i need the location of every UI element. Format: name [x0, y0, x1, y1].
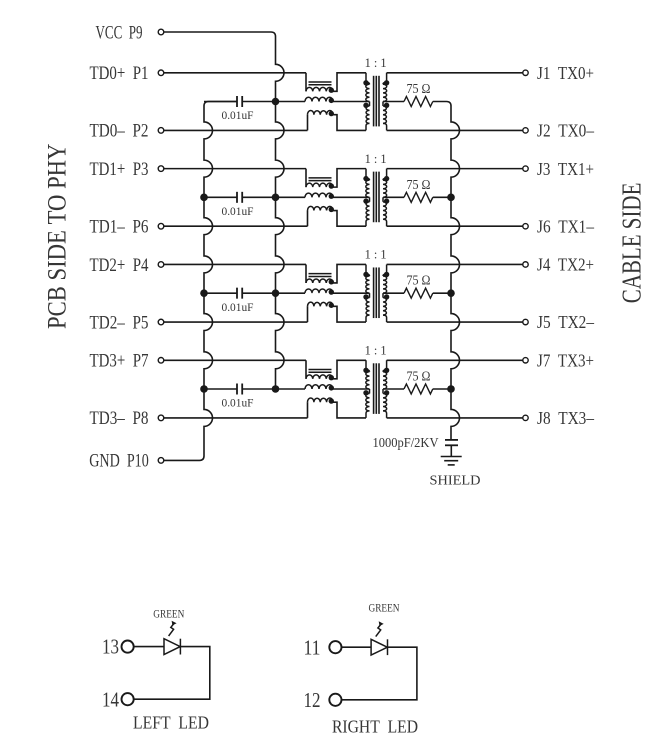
transformer T3 secondary winding	[383, 264, 387, 276]
svg-text:75 Ω: 75 Ω	[407, 81, 431, 96]
svg-text:75 Ω: 75 Ω	[407, 273, 431, 288]
choke L4 winding c	[307, 402, 309, 418]
junction capacitor bus channel 3	[200, 289, 208, 297]
svg-text:0.01uF: 0.01uF	[222, 396, 254, 410]
choke L3 winding c	[307, 306, 309, 322]
choke L1 winding b (center-tap path)	[276, 101, 306, 103]
svg-text:TD2+ P4: TD2+ P4	[90, 256, 149, 276]
capacitor C5 1000pF/2KV	[445, 439, 458, 441]
choke L3 winding a	[305, 264, 307, 283]
transformer T3 secondary dots	[384, 272, 389, 277]
ground symbol SHIELD	[441, 456, 462, 458]
choke L1 winding a	[305, 73, 307, 92]
svg-text:PCB SIDE TO PHY: PCB SIDE TO PHY	[42, 143, 71, 329]
resistor R4 75 ohm	[383, 388, 404, 390]
wire TX3+ row	[387, 359, 523, 361]
pin 12 terminal	[329, 694, 341, 706]
wire TD0- row	[164, 129, 308, 131]
capacitor C3 0.01uF	[204, 292, 237, 294]
transformer T4 primary dots	[363, 368, 368, 373]
wire LED cathode to pin 12	[342, 647, 417, 700]
pin P1 terminal	[158, 70, 164, 76]
common-mode choke L4 core	[309, 368, 332, 370]
common-mode choke L2 core	[309, 177, 332, 179]
transformer T3 primary dots	[363, 272, 368, 277]
wire TD3- row	[164, 417, 308, 419]
wire GND P10 to capacitor bus with hops	[164, 102, 237, 461]
wire TD2+ row	[164, 263, 306, 265]
svg-text:1000pF/2KV: 1000pF/2KV	[373, 435, 439, 450]
transformer T1 core	[373, 76, 375, 127]
choke L3 winding c polarity dot	[329, 303, 334, 308]
pin P2 terminal	[158, 128, 164, 134]
pin J8 terminal	[523, 415, 528, 420]
wire pin 13 to LED anode	[134, 646, 164, 648]
resistor R2 75 ohm	[383, 196, 404, 198]
junction center-tap bus channel 1	[272, 98, 280, 106]
pin P4 terminal	[158, 262, 164, 268]
choke L2 winding b (center-tap path)	[276, 196, 306, 198]
wire VCC P9 to center-tap bus + vertical bus with hops	[164, 32, 284, 389]
transformer T1 primary winding	[366, 73, 370, 85]
transformer T2 primary winding	[366, 169, 370, 180]
svg-text:1 : 1: 1 : 1	[365, 152, 387, 166]
junction capacitor bus channel 4	[200, 385, 208, 393]
common-mode choke L1 core	[309, 81, 332, 83]
pin J4 terminal	[523, 262, 528, 267]
svg-text:75 Ω: 75 Ω	[407, 177, 431, 192]
svg-text:LEFT LED: LEFT LED	[133, 713, 209, 733]
transformer T3 core	[373, 267, 375, 318]
svg-text:13: 13	[102, 635, 119, 659]
pin VCC P9 terminal	[158, 29, 164, 35]
choke L4 winding a	[305, 360, 307, 379]
wire TD3+ row	[164, 359, 306, 361]
transformer T4 secondary winding	[383, 360, 387, 372]
svg-text:1 : 1: 1 : 1	[365, 248, 387, 262]
wire TX1- row	[387, 225, 523, 227]
svg-text:CABLE SIDE: CABLE SIDE	[617, 183, 647, 304]
svg-text:1 : 1: 1 : 1	[365, 56, 387, 70]
svg-text:J6 TX1–: J6 TX1–	[537, 216, 595, 236]
capacitor C4 0.01uF	[204, 388, 237, 390]
svg-text:1 : 1: 1 : 1	[365, 344, 387, 358]
choke L1 winding c	[307, 115, 309, 131]
LED D-RIGHT (green)	[371, 639, 387, 655]
wire TX1+ row	[387, 168, 523, 170]
wire TX2- row	[387, 321, 523, 323]
transformer T4 primary winding	[366, 360, 370, 372]
wire pin 11 to LED anode	[342, 646, 372, 648]
wire TD0+ row	[164, 72, 306, 74]
pin 13 terminal	[122, 641, 134, 653]
junction center-tap bus channel 2	[272, 194, 280, 202]
pin J5 terminal	[523, 319, 528, 324]
choke L4 winding c polarity dot	[329, 398, 334, 403]
svg-text:J1 TX0+: J1 TX0+	[537, 63, 594, 83]
resistor R1 75 ohm	[383, 101, 404, 103]
junction center-tap bus channel 4	[272, 385, 280, 393]
choke L3 winding a polarity dot	[329, 279, 334, 284]
svg-text:75 Ω: 75 Ω	[407, 369, 431, 384]
svg-text:TD3+ P7: TD3+ P7	[90, 352, 149, 372]
svg-text:0.01uF: 0.01uF	[222, 108, 254, 122]
pin P5 terminal	[158, 319, 164, 325]
svg-text:0.01uF: 0.01uF	[222, 300, 254, 314]
choke L2 winding b polarity dot	[329, 194, 334, 199]
svg-text:12: 12	[304, 688, 321, 712]
choke L3 winding b (center-tap path)	[276, 292, 306, 294]
wire TX0+ row	[387, 72, 523, 74]
transformer T4 secondary dots	[384, 368, 389, 373]
choke L4 winding b (center-tap path)	[276, 388, 306, 390]
svg-text:J7 TX3+: J7 TX3+	[537, 350, 594, 370]
pin J2 terminal	[523, 128, 528, 133]
LED D-LEFT (green)	[164, 639, 180, 655]
svg-text:J2 TX0–: J2 TX0–	[537, 121, 595, 141]
svg-text:RIGHT LED: RIGHT LED	[332, 717, 418, 737]
choke L2 winding a	[305, 169, 307, 188]
common-mode choke L3 core	[309, 273, 332, 275]
junction shield bus channel 4	[447, 385, 455, 393]
choke L1 winding b polarity dot	[329, 98, 334, 103]
svg-text:SHIELD: SHIELD	[430, 472, 481, 487]
transformer T1 primary dots	[363, 80, 368, 85]
svg-text:0.01uF: 0.01uF	[222, 204, 254, 218]
pin J3 terminal	[523, 166, 528, 171]
svg-text:J8 TX3–: J8 TX3–	[537, 408, 595, 428]
choke L1 winding c polarity dot	[329, 111, 334, 116]
transformer T2 core	[373, 172, 375, 223]
svg-text:GND P10: GND P10	[89, 452, 149, 472]
svg-text:TD2– P5: TD2– P5	[90, 313, 149, 333]
svg-text:TD0+ P1: TD0+ P1	[90, 64, 149, 84]
choke L4 winding a polarity dot	[329, 375, 334, 380]
choke L3 winding b polarity dot	[329, 289, 334, 294]
wire TD2- row	[164, 321, 308, 323]
choke L2 winding a polarity dot	[329, 183, 334, 188]
pin J1 terminal	[523, 70, 528, 75]
svg-text:J5 TX2–: J5 TX2–	[537, 312, 595, 332]
wire TX0- row	[387, 129, 523, 131]
svg-text:GREEN: GREEN	[153, 607, 184, 621]
pin J6 terminal	[523, 224, 528, 229]
svg-text:J3 TX1+: J3 TX1+	[537, 159, 594, 179]
svg-text:TD1+ P3: TD1+ P3	[90, 160, 149, 180]
choke L1 winding a polarity dot	[329, 88, 334, 93]
capacitor C2 0.01uF	[204, 196, 237, 198]
pin 14 terminal	[122, 693, 134, 705]
wire TD1+ row	[164, 168, 306, 170]
resistor R3 75 ohm	[383, 292, 404, 294]
capacitor C1 0.01uF	[204, 101, 237, 103]
wire TX2+ row	[387, 263, 523, 265]
pin P3 terminal	[158, 166, 164, 172]
transformer T3 primary winding	[366, 264, 370, 276]
junction shield bus channel 3	[447, 289, 455, 297]
pin P7 terminal	[158, 357, 164, 363]
choke L2 winding c polarity dot	[329, 207, 334, 212]
LEFT LED light arrow	[169, 623, 175, 636]
transformer T2 secondary dots	[384, 176, 389, 181]
pin J7 terminal	[523, 358, 528, 363]
svg-text:VCC P9: VCC P9	[96, 23, 143, 43]
pin 11 terminal	[329, 641, 341, 653]
choke L4 winding b polarity dot	[329, 385, 334, 390]
junction shield bus channel 2	[447, 194, 455, 202]
transformer T1 secondary winding	[383, 73, 387, 85]
junction capacitor bus channel 2	[200, 194, 208, 202]
pin P6 terminal	[158, 223, 164, 229]
svg-text:TD3– P8: TD3– P8	[90, 409, 149, 429]
svg-text:11: 11	[304, 635, 321, 659]
svg-text:14: 14	[102, 687, 119, 711]
transformer T4 core	[373, 363, 375, 414]
pin P8 terminal	[158, 415, 164, 421]
transformer T2 secondary winding	[383, 169, 387, 180]
wire TD1- row	[164, 225, 308, 227]
wire LED cathode to pin 14	[134, 647, 210, 700]
svg-text:TD1– P6: TD1– P6	[90, 218, 149, 238]
transformer T2 primary dots	[363, 176, 368, 181]
choke L2 winding c	[307, 211, 309, 227]
svg-text:GREEN: GREEN	[369, 600, 400, 614]
junction center-tap bus channel 3	[272, 289, 280, 297]
pin GND P10 terminal	[158, 458, 164, 464]
transformer T1 secondary dots	[384, 80, 389, 85]
svg-text:TD0– P2: TD0– P2	[90, 122, 149, 142]
wire 75-ohm common bus to shield capacitor with hops	[433, 102, 460, 440]
wire TX3- row	[387, 417, 523, 419]
svg-text:J4 TX2+: J4 TX2+	[537, 255, 594, 275]
RIGHT LED light arrow	[376, 624, 382, 637]
